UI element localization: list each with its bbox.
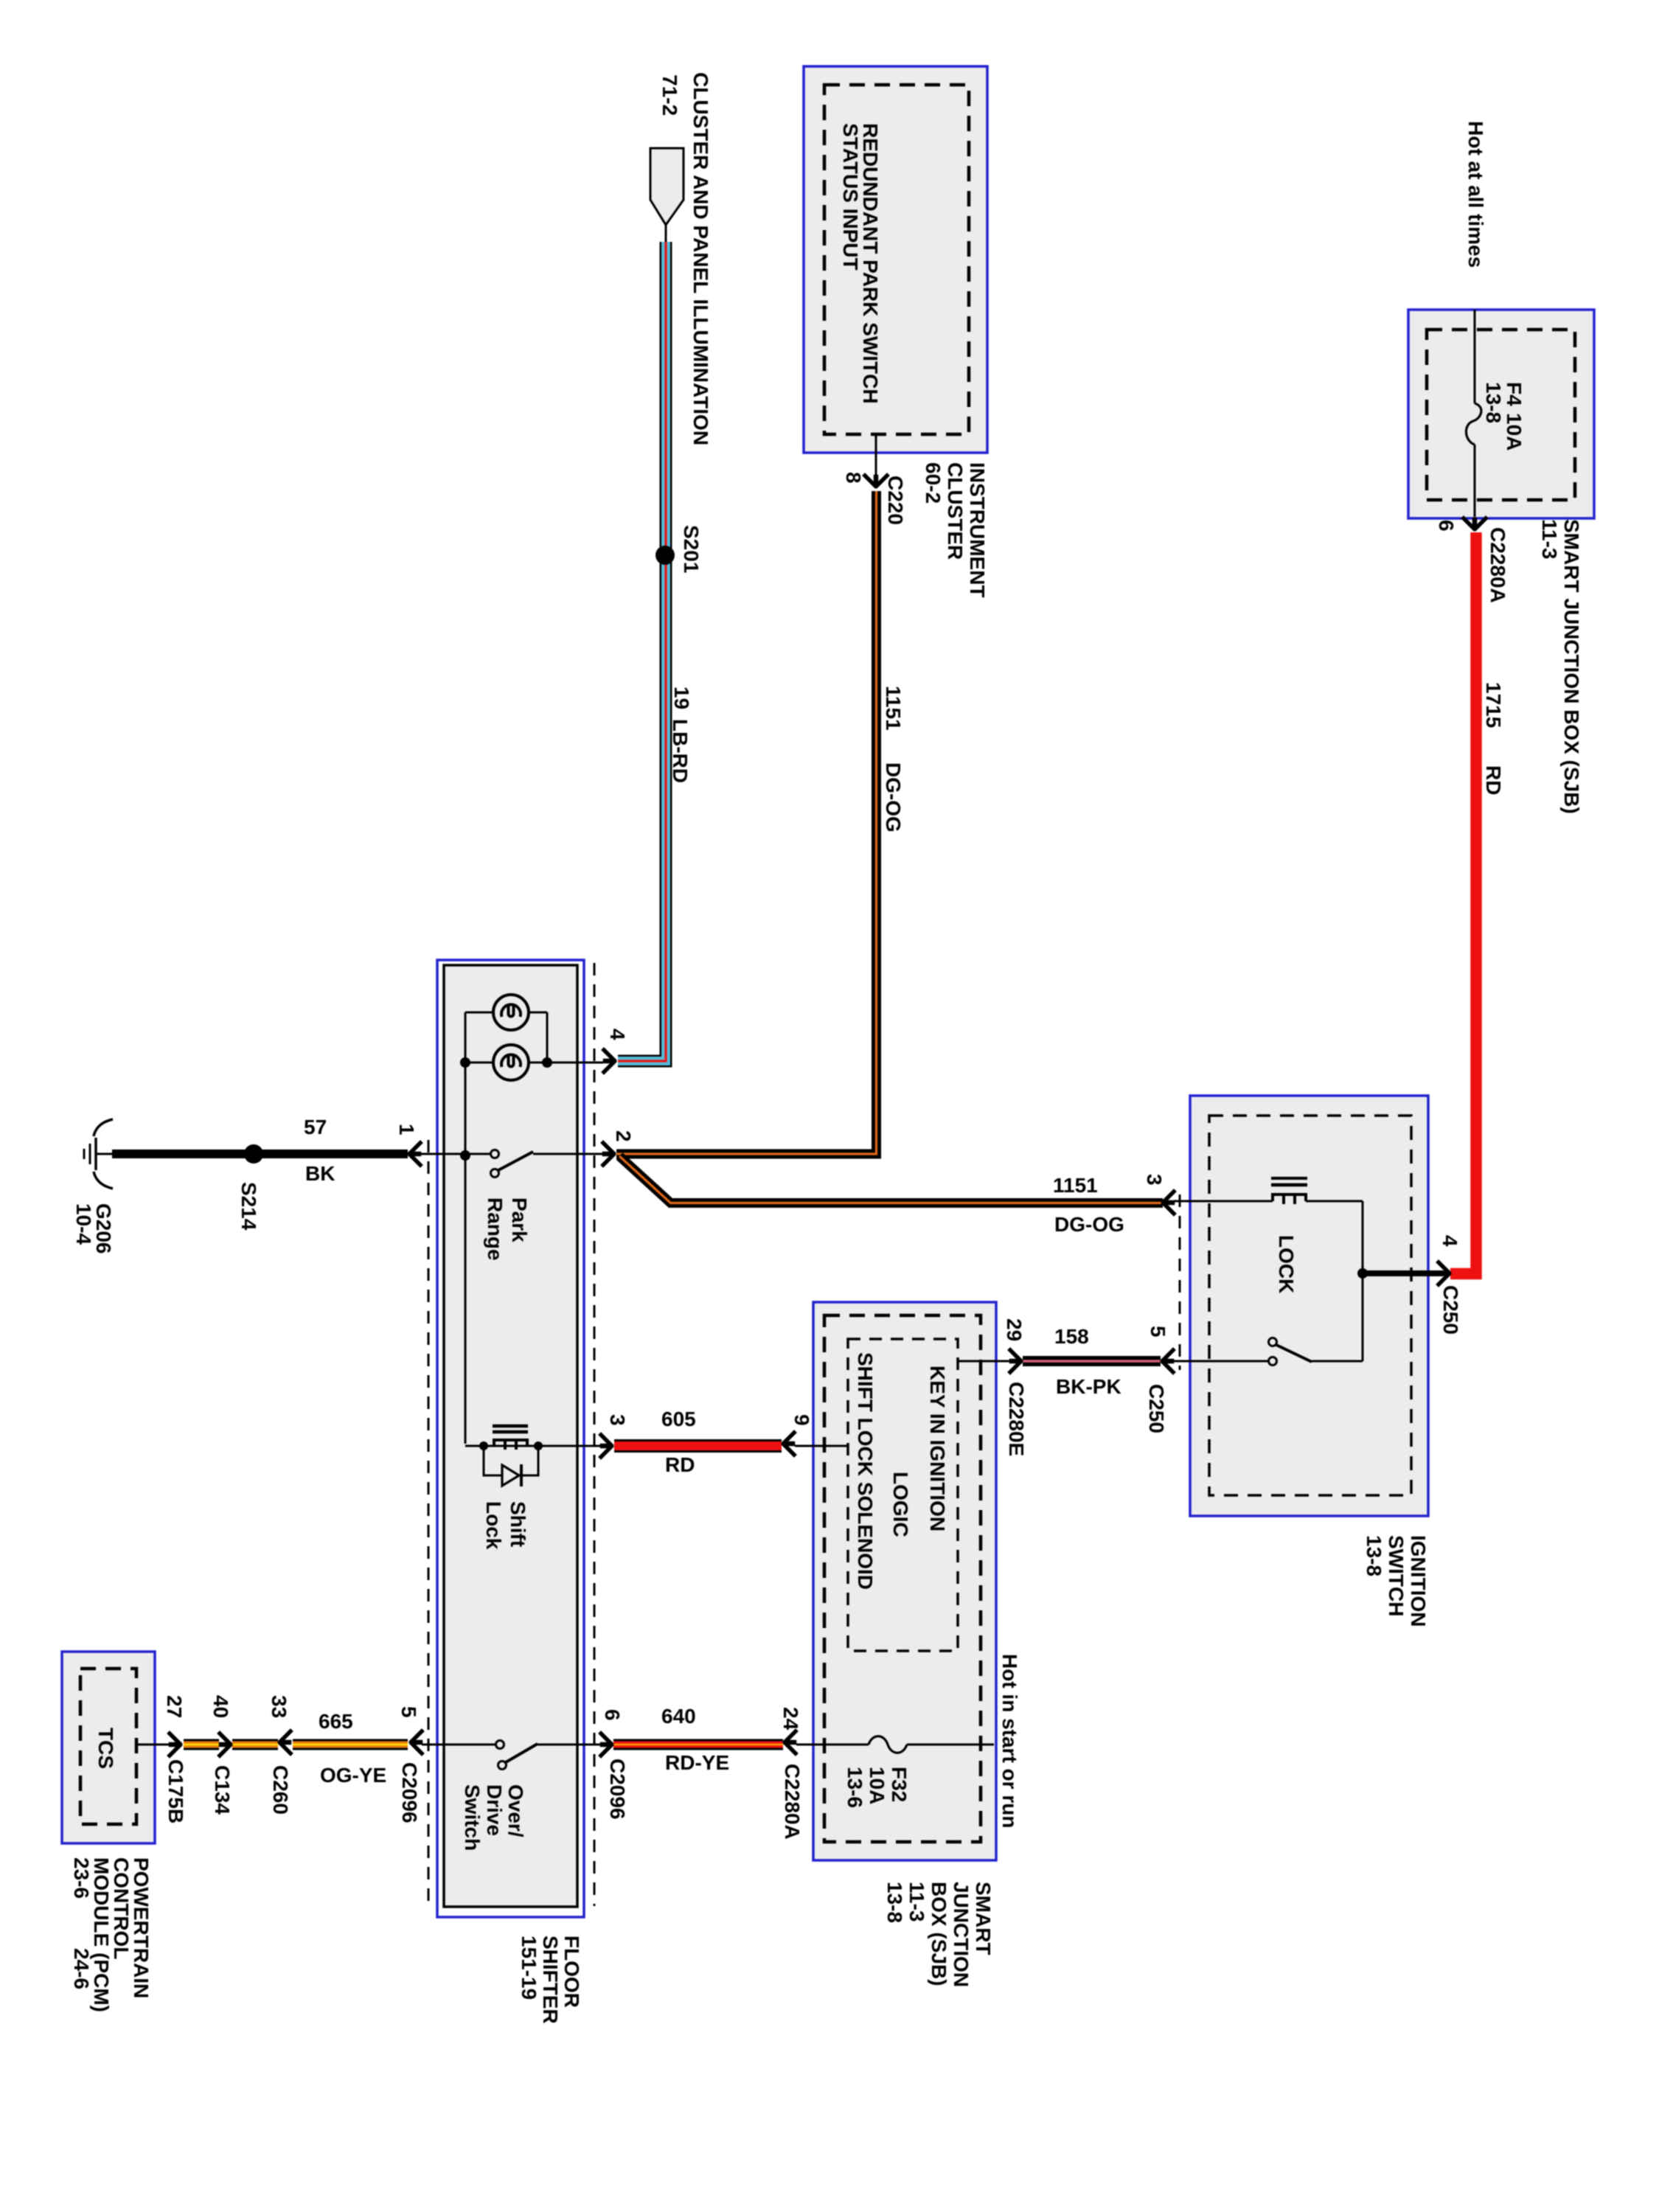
svg-text:24: 24 [779, 1707, 802, 1731]
svg-text:9: 9 [790, 1414, 813, 1426]
svg-text:RD: RD [665, 1453, 695, 1476]
svg-text:SHIFTER: SHIFTER [539, 1935, 562, 2024]
svg-text:C260: C260 [269, 1765, 292, 1815]
svg-text:LB-RD: LB-RD [669, 719, 692, 783]
svg-text:OG-YE: OG-YE [320, 1764, 386, 1787]
svg-text:LOGIC: LOGIC [889, 1472, 912, 1537]
svg-text:605: 605 [661, 1408, 696, 1430]
svg-text:71-2: 71-2 [658, 74, 681, 116]
svg-text:10A: 10A [1503, 413, 1526, 451]
svg-text:10A: 10A [866, 1767, 888, 1804]
svg-text:DG-OG: DG-OG [1054, 1213, 1124, 1236]
svg-text:BK-PK: BK-PK [1056, 1375, 1121, 1398]
svg-text:57: 57 [304, 1116, 327, 1138]
svg-text:27: 27 [163, 1695, 186, 1718]
svg-text:665: 665 [319, 1710, 353, 1733]
svg-text:Range: Range [484, 1197, 507, 1261]
svg-text:Shift: Shift [507, 1501, 529, 1547]
svg-text:2: 2 [612, 1130, 635, 1142]
svg-text:Drive: Drive [483, 1784, 506, 1836]
svg-text:F4: F4 [1503, 382, 1526, 406]
svg-text:640: 640 [661, 1705, 696, 1728]
svg-text:1: 1 [395, 1124, 418, 1135]
svg-text:40: 40 [209, 1695, 232, 1718]
svg-text:3: 3 [606, 1414, 629, 1426]
svg-text:C175B: C175B [164, 1759, 187, 1823]
svg-text:BOX (SJB): BOX (SJB) [928, 1882, 950, 1986]
svg-text:4: 4 [1439, 1235, 1461, 1247]
svg-text:RD: RD [1482, 765, 1505, 795]
svg-text:BK: BK [305, 1162, 335, 1185]
svg-text:1151: 1151 [882, 686, 905, 731]
svg-text:29: 29 [1003, 1318, 1026, 1341]
svg-text:Park: Park [508, 1197, 531, 1242]
svg-text:SMART JUNCTION BOX (SJB): SMART JUNCTION BOX (SJB) [1560, 519, 1583, 814]
svg-text:24-6: 24-6 [70, 1948, 93, 1989]
svg-text:1151: 1151 [1053, 1174, 1098, 1197]
svg-text:23-6: 23-6 [70, 1857, 93, 1899]
svg-text:19: 19 [670, 686, 693, 709]
svg-text:S201: S201 [680, 525, 703, 573]
svg-text:13-8: 13-8 [1482, 382, 1505, 423]
svg-text:SMART: SMART [972, 1882, 995, 1955]
svg-text:JUNCTION: JUNCTION [950, 1882, 973, 1987]
svg-text:13-8: 13-8 [1363, 1535, 1385, 1576]
svg-text:C134: C134 [211, 1765, 234, 1815]
svg-text:TCS: TCS [94, 1728, 117, 1769]
svg-text:3: 3 [1143, 1174, 1166, 1186]
svg-text:SWITCH: SWITCH [1385, 1535, 1408, 1616]
svg-text:C2096: C2096 [606, 1759, 629, 1820]
svg-text:FLOOR: FLOOR [560, 1935, 583, 2008]
svg-text:11-3: 11-3 [1538, 519, 1561, 560]
svg-text:SHIFT LOCK SOLENOID: SHIFT LOCK SOLENOID [854, 1352, 877, 1590]
svg-text:Hot in start or run: Hot in start or run [998, 1654, 1021, 1828]
svg-text:1715: 1715 [1482, 682, 1505, 728]
svg-text:CLUSTER AND PANEL ILLUMINATION: CLUSTER AND PANEL ILLUMINATION [689, 72, 712, 445]
svg-text:Hot at all times: Hot at all times [1464, 121, 1487, 268]
svg-text:33: 33 [268, 1695, 291, 1718]
svg-text:LOCK: LOCK [1275, 1235, 1298, 1293]
svg-text:C250: C250 [1145, 1384, 1168, 1433]
svg-text:Over/: Over/ [504, 1784, 527, 1837]
svg-text:11-3: 11-3 [905, 1882, 928, 1922]
svg-text:4: 4 [606, 1029, 629, 1040]
svg-text:6: 6 [1435, 520, 1458, 532]
svg-text:60-2: 60-2 [922, 462, 945, 504]
svg-text:6: 6 [601, 1709, 624, 1721]
svg-text:C2280A: C2280A [781, 1764, 804, 1840]
svg-text:F32: F32 [888, 1767, 911, 1802]
svg-text:STATUS INPUT: STATUS INPUT [839, 123, 862, 271]
svg-text:C220: C220 [884, 476, 907, 525]
svg-text:INSTRUMENT: INSTRUMENT [966, 462, 989, 598]
svg-text:13-6: 13-6 [844, 1767, 866, 1808]
svg-text:C2280E: C2280E [1005, 1382, 1028, 1456]
svg-text:Lock: Lock [482, 1501, 505, 1550]
svg-text:C2096: C2096 [398, 1762, 421, 1823]
svg-text:5: 5 [397, 1706, 420, 1718]
svg-text:10-4: 10-4 [72, 1203, 95, 1245]
svg-text:CLUSTER: CLUSTER [944, 462, 967, 560]
svg-text:8: 8 [842, 472, 865, 484]
svg-text:RD-YE: RD-YE [665, 1751, 729, 1774]
svg-text:C250: C250 [1439, 1285, 1462, 1335]
svg-text:DG-OG: DG-OG [882, 762, 905, 832]
svg-text:IGNITION: IGNITION [1407, 1535, 1430, 1627]
svg-text:KEY IN IGNITION: KEY IN IGNITION [926, 1366, 949, 1531]
svg-text:S214: S214 [237, 1182, 260, 1231]
svg-text:C2280A: C2280A [1486, 527, 1509, 603]
svg-text:Switch: Switch [461, 1784, 484, 1851]
svg-text:13-8: 13-8 [883, 1882, 906, 1923]
svg-text:158: 158 [1054, 1325, 1089, 1348]
svg-text:5: 5 [1147, 1326, 1169, 1338]
svg-text:151-19: 151-19 [518, 1935, 540, 2000]
